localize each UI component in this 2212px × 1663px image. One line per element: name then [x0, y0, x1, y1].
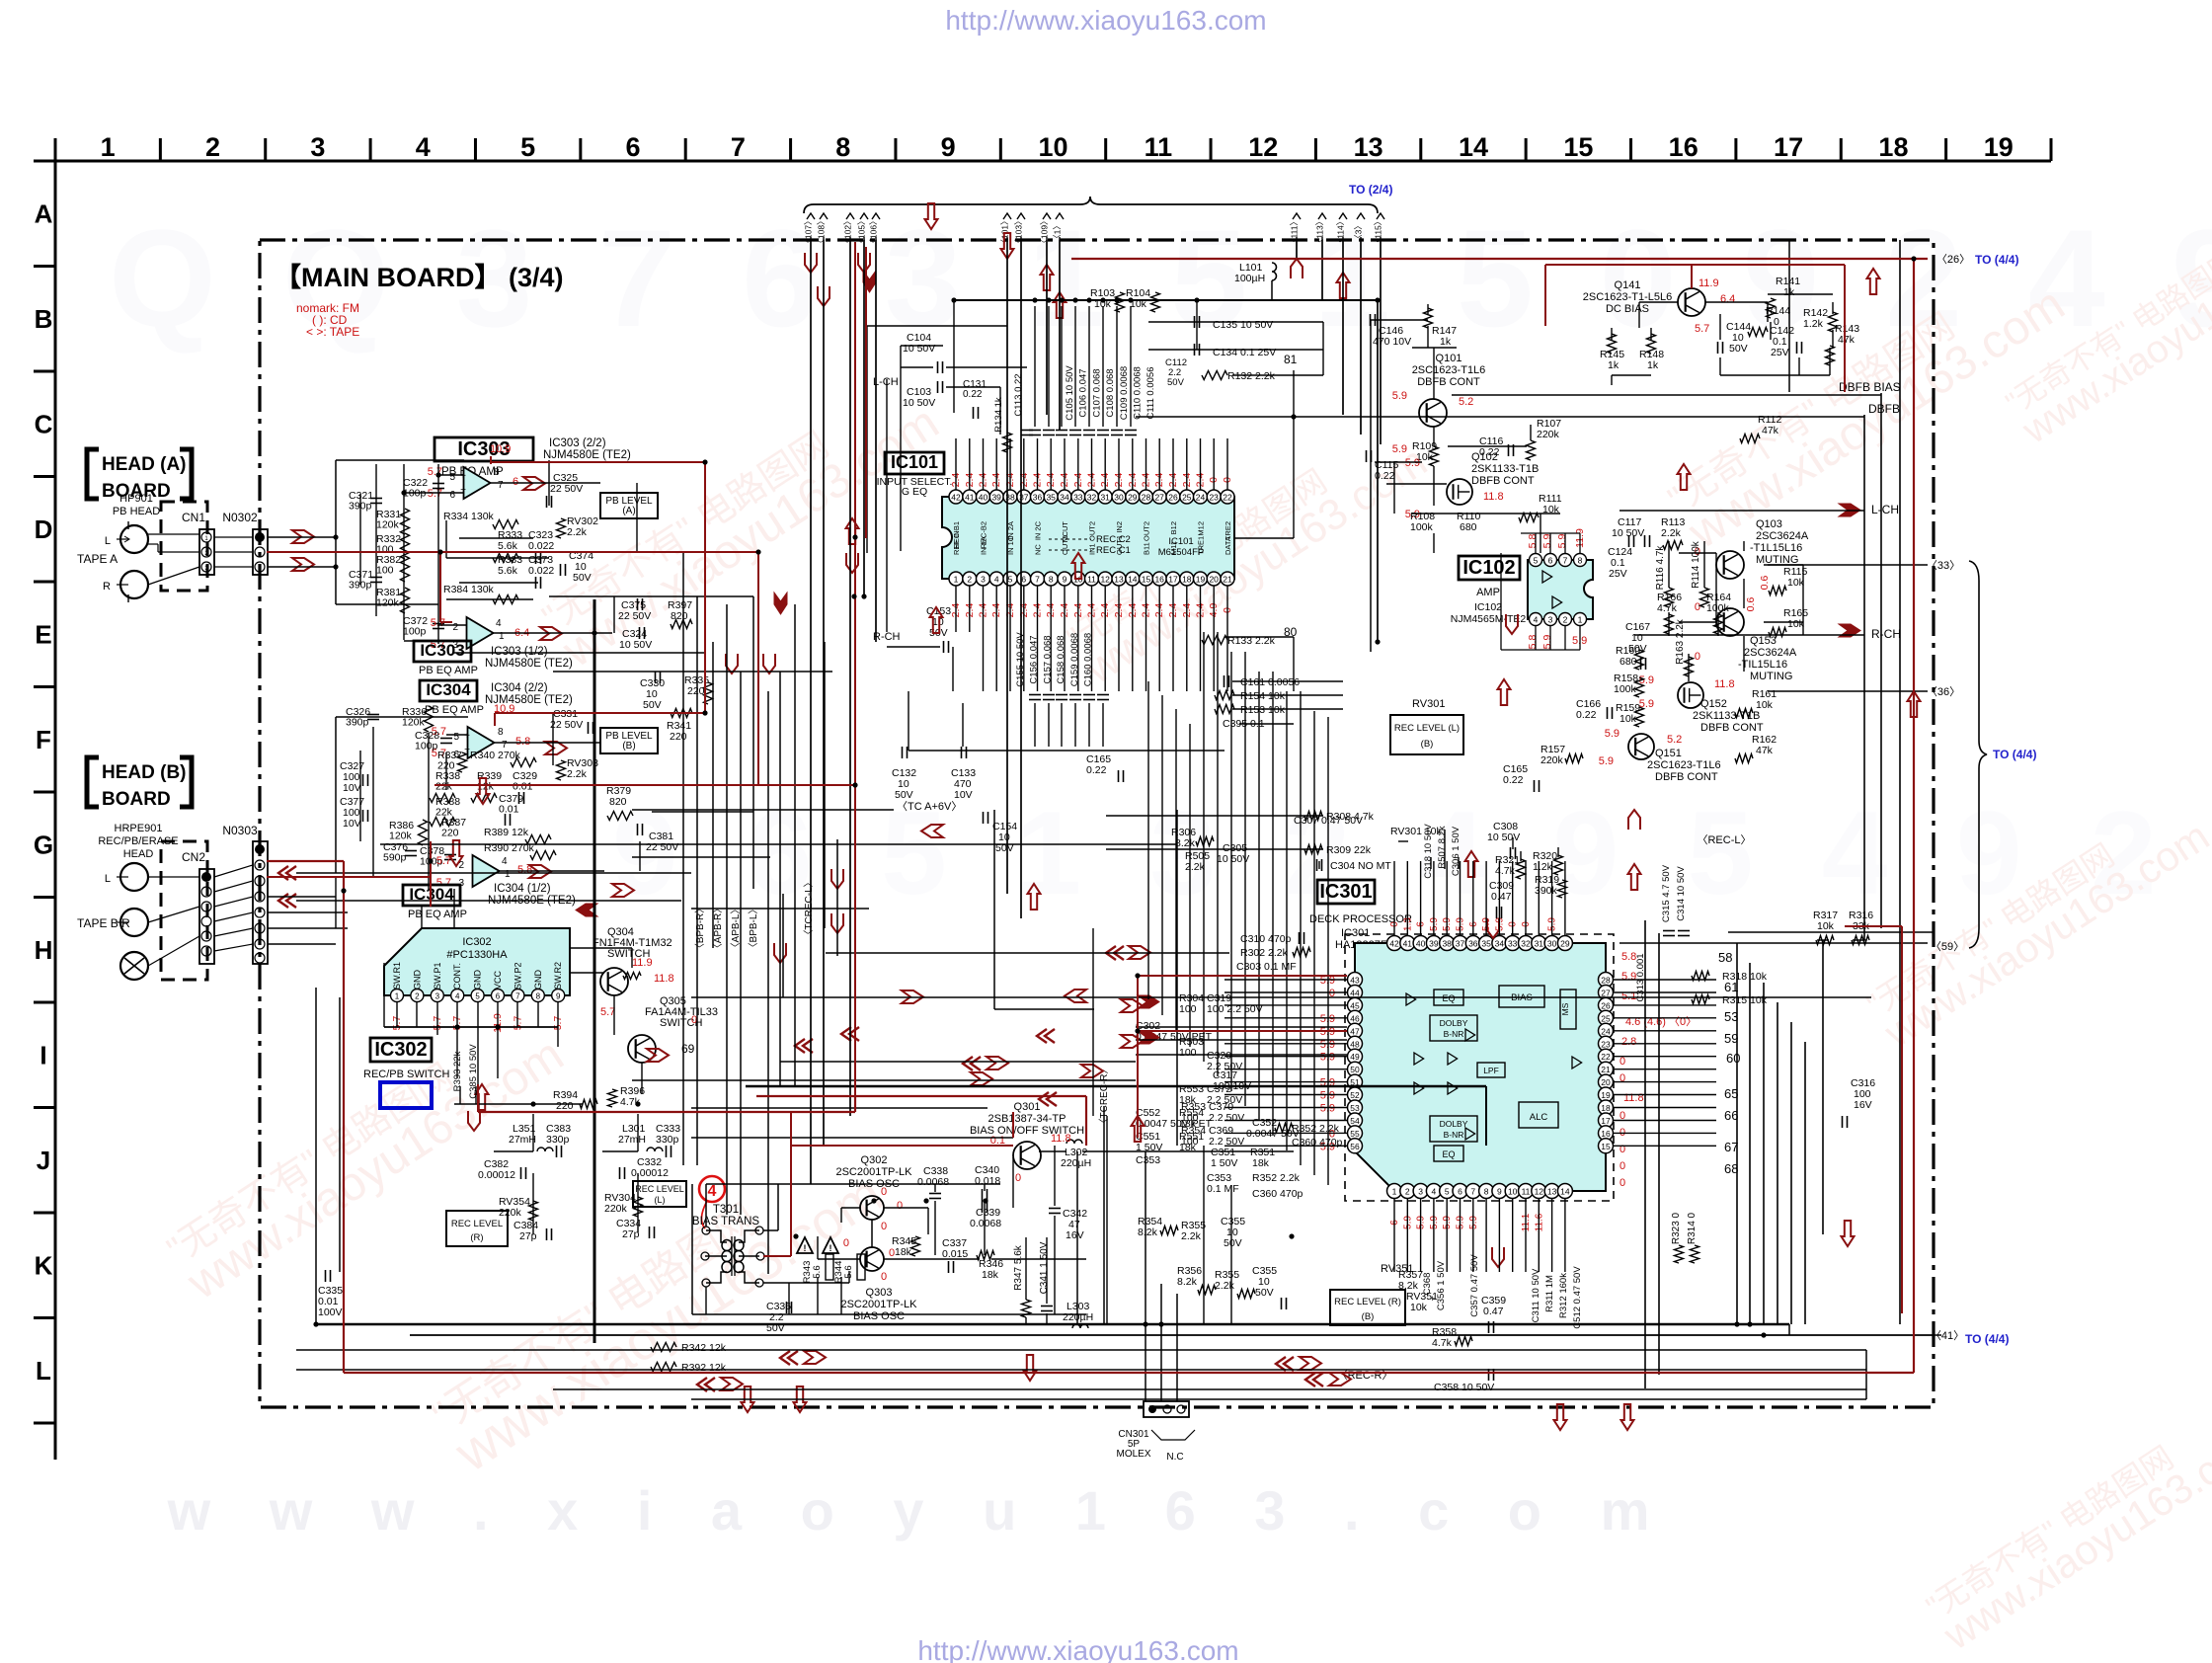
svg-text:220k: 220k — [604, 1203, 628, 1215]
svg-text:TO (4/4): TO (4/4) — [1993, 748, 2036, 761]
decorative watermark diagonal 4 — [1060, 411, 1436, 693]
svg-text:R-CH: R-CH — [1871, 627, 1901, 641]
svg-text:SW.R2: SW.R2 — [553, 962, 563, 990]
svg-text:4: 4 — [502, 856, 508, 867]
svg-text:0.022: 0.022 — [528, 565, 554, 577]
svg-text:7: 7 — [1563, 556, 1568, 566]
svg-text:8: 8 — [835, 132, 850, 162]
svg-text:20: 20 — [1209, 575, 1219, 585]
svg-text:C341 1 50V: C341 1 50V — [1039, 1241, 1050, 1294]
svg-text:RV301: RV301 — [1412, 698, 1445, 710]
svg-text:5: 5 — [475, 992, 480, 1001]
svg-text:OUT1: OUT1 — [1115, 535, 1124, 555]
svg-text:5.2: 5.2 — [1459, 396, 1473, 408]
svg-text:1: 1 — [1578, 615, 1583, 625]
svg-text:L: L — [105, 873, 111, 885]
svg-text:1k: 1k — [1440, 336, 1452, 348]
svg-text:R314 0: R314 0 — [1687, 1212, 1698, 1244]
svg-text:220k: 220k — [1537, 429, 1560, 440]
svg-text:11.8: 11.8 — [1051, 1133, 1071, 1145]
svg-text:〈108〉: 〈108〉 — [817, 216, 827, 247]
svg-text:27p: 27p — [519, 1230, 537, 1242]
svg-text:G: G — [34, 830, 53, 859]
svg-text:330p: 330p — [546, 1134, 570, 1146]
svg-text:47k: 47k — [1762, 425, 1779, 436]
svg-text:22: 22 — [1601, 1052, 1611, 1062]
svg-text:2SC3624A: 2SC3624A — [1756, 530, 1809, 542]
svg-text:DOLBY: DOLBY — [1440, 1119, 1468, 1129]
svg-text:0.01: 0.01 — [499, 804, 519, 816]
svg-text:< >: TAPE: < >: TAPE — [306, 325, 359, 339]
svg-text:C135 10 50V: C135 10 50V — [1213, 319, 1273, 331]
svg-text:9: 9 — [1063, 575, 1067, 585]
svg-text:8: 8 — [1578, 556, 1583, 566]
svg-text:REC LEVEL: REC LEVEL — [451, 1219, 503, 1229]
svg-text:590p: 590p — [383, 852, 407, 864]
svg-text:50V: 50V — [895, 789, 913, 801]
svg-text:0.47: 0.47 — [1483, 1306, 1504, 1317]
svg-text:46: 46 — [1350, 1013, 1360, 1023]
svg-text:5.9: 5.9 — [1605, 728, 1619, 740]
svg-text:DBFB CONT: DBFB CONT — [1471, 475, 1535, 487]
svg-text:2SB1387-34-TP: 2SB1387-34-TP — [988, 1113, 1066, 1125]
svg-text:〈APB-L〉: 〈APB-L〉 — [730, 905, 742, 953]
svg-text:220: 220 — [670, 731, 687, 743]
svg-text:16: 16 — [1154, 575, 1164, 585]
svg-text:36: 36 — [1033, 493, 1043, 503]
svg-text:820: 820 — [671, 610, 688, 622]
svg-text:IN 1A: IN 1A — [980, 536, 988, 555]
svg-text:20: 20 — [1601, 1077, 1611, 1087]
svg-text:L-CH: L-CH — [1871, 503, 1899, 516]
svg-text:0.6: 0.6 — [1759, 576, 1771, 591]
svg-text:REC LEVEL (L): REC LEVEL (L) — [1394, 723, 1460, 734]
svg-text:3: 3 — [1548, 615, 1553, 625]
svg-text:2.2k: 2.2k — [1661, 527, 1682, 539]
svg-text:L-CH: L-CH — [873, 376, 899, 388]
svg-text:35: 35 — [1481, 939, 1491, 949]
svg-text:100V: 100V — [318, 1307, 343, 1318]
svg-text:47k: 47k — [1756, 745, 1774, 756]
svg-text:C111 0.0056: C111 0.0056 — [1145, 367, 1156, 420]
IC102 chip body — [1528, 560, 1593, 619]
svg-text:DC BIAS: DC BIAS — [1606, 303, 1649, 315]
svg-text:6: 6 — [1548, 556, 1553, 566]
svg-text:15: 15 — [1563, 132, 1593, 162]
svg-text:+: + — [464, 731, 470, 742]
box REC LEVEL R — [1330, 1290, 1405, 1325]
decorative watermark diagonal 1 — [159, 998, 573, 1309]
box REC LEVEL R2 — [446, 1211, 508, 1246]
IC301 pins — [1387, 936, 1402, 951]
svg-text:10 50V: 10 50V — [1487, 831, 1520, 843]
IC301 chip body — [1355, 943, 1606, 1191]
svg-text:33: 33 — [1508, 939, 1518, 949]
head A L coil — [120, 525, 148, 553]
decorative watermark diagonal 3 — [534, 366, 948, 677]
svg-text:4: 4 — [994, 575, 999, 585]
svg-text:22 50V: 22 50V — [550, 483, 583, 495]
svg-text:25V: 25V — [1771, 347, 1789, 358]
black wires — [810, 240, 812, 1184]
svg-text:1: 1 — [101, 132, 116, 162]
svg-text:18k: 18k — [982, 1269, 999, 1281]
svg-text:5.7: 5.7 — [1695, 323, 1709, 335]
svg-text:H: H — [35, 935, 53, 965]
op-amp U IC303a — [464, 467, 491, 499]
svg-text:M12: M12 — [1197, 521, 1206, 536]
svg-text:55: 55 — [1350, 1129, 1360, 1139]
svg-text:Q151: Q151 — [1655, 748, 1682, 759]
IC302 block label — [370, 1038, 432, 1062]
svg-text:GND: GND — [533, 970, 543, 990]
svg-text:IC102: IC102 — [1462, 557, 1515, 579]
svg-text:4.7k: 4.7k — [1657, 602, 1678, 614]
op-amp U IC304a — [468, 727, 495, 758]
svg-text:19: 19 — [1196, 575, 1206, 585]
svg-text:R309 22k: R309 22k — [1326, 844, 1372, 856]
svg-text:−: − — [460, 485, 466, 496]
svg-text:11.9: 11.9 — [1698, 277, 1719, 289]
svg-text:21: 21 — [1223, 575, 1232, 585]
svg-text:100p: 100p — [415, 741, 438, 752]
svg-text:NJM4580E (TE2): NJM4580E (TE2) — [543, 449, 631, 461]
svg-text:13: 13 — [1354, 132, 1383, 162]
IC101 chip body — [942, 497, 1234, 579]
svg-text:100p: 100p — [403, 626, 427, 638]
svg-text:R323 0: R323 0 — [1671, 1212, 1682, 1244]
svg-text:B12: B12 — [1169, 521, 1178, 534]
wire head A to CN1 — [148, 533, 199, 535]
svg-text:VCC: VCC — [493, 970, 503, 990]
svg-text:14: 14 — [1560, 1187, 1570, 1197]
svg-text:0.022: 0.022 — [528, 540, 554, 552]
svg-text:C: C — [35, 409, 53, 438]
svg-text:EQ: EQ — [1442, 1149, 1455, 1159]
svg-text:6: 6 — [1458, 1187, 1462, 1197]
svg-text:5.9: 5.9 — [1392, 390, 1407, 402]
svg-text:〈REC-L〉: 〈REC-L〉 — [1697, 833, 1751, 846]
svg-text:R114 100k: R114 100k — [1691, 540, 1701, 589]
svg-text:http://www.xiaoyu163.com: http://www.xiaoyu163.com — [917, 1635, 1238, 1663]
svg-text:120k: 120k — [389, 831, 413, 842]
svg-text:REC C1: REC C1 — [1096, 545, 1131, 556]
grid ruler frame — [55, 160, 2051, 163]
svg-text:1: 1 — [395, 992, 400, 1001]
svg-text:C314 10 50V: C314 10 50V — [1676, 866, 1687, 921]
svg-text:R134 1k: R134 1k — [993, 397, 1004, 433]
svg-text:50V: 50V — [1224, 1237, 1242, 1249]
svg-text:1k: 1k — [1647, 359, 1659, 371]
svg-text:10 50V: 10 50V — [1217, 853, 1249, 865]
svg-text:C360 470p: C360 470p — [1252, 1188, 1303, 1200]
svg-text:5.6k: 5.6k — [498, 540, 518, 552]
svg-text:0: 0 — [1619, 1160, 1625, 1172]
svg-text:10: 10 — [1038, 132, 1067, 162]
transistor Q102 — [1447, 479, 1472, 505]
svg-text:Q141: Q141 — [1615, 279, 1641, 291]
svg-text:13: 13 — [1114, 575, 1124, 585]
svg-text:〈107〉: 〈107〉 — [804, 216, 814, 247]
head A dashed box — [161, 502, 207, 591]
svg-text:BIAS OSC: BIAS OSC — [853, 1310, 905, 1322]
svg-text:12: 12 — [1100, 575, 1110, 585]
svg-text:54: 54 — [1350, 1116, 1360, 1126]
svg-text:5.8: 5.8 — [1527, 534, 1539, 549]
svg-text:Q103: Q103 — [1756, 518, 1782, 530]
svg-text:27: 27 — [1601, 989, 1611, 998]
svg-text:C134 0.1 25V: C134 0.1 25V — [1213, 347, 1276, 358]
box REC LEVEL L2 — [633, 1181, 686, 1207]
svg-text:R389 12k: R389 12k — [484, 827, 529, 838]
svg-text:2: 2 — [452, 622, 458, 633]
svg-text:53: 53 — [1350, 1103, 1360, 1113]
svg-text:2.2 50V: 2.2 50V — [1209, 1112, 1244, 1124]
svg-text:10 50V: 10 50V — [619, 639, 652, 651]
svg-text:5.8: 5.8 — [1527, 635, 1539, 650]
svg-text:GND: GND — [412, 970, 422, 990]
svg-text:Q303: Q303 — [866, 1287, 893, 1299]
svg-text:CN1: CN1 — [182, 511, 205, 524]
svg-text:C315 4.7 50V: C315 4.7 50V — [1661, 864, 1672, 922]
svg-text:F: F — [36, 725, 51, 754]
svg-text:47k: 47k — [1838, 334, 1856, 346]
svg-text:15: 15 — [1142, 575, 1151, 585]
svg-text:6: 6 — [449, 490, 455, 501]
svg-text:58: 58 — [1718, 950, 1732, 965]
op-amp U IC303b — [467, 617, 494, 649]
svg-text:NC: NC — [1034, 544, 1043, 555]
svg-text:C107 0.068: C107 0.068 — [1091, 368, 1102, 417]
decorative watermark diagonal 6 — [1919, 1390, 2212, 1659]
svg-text:16: 16 — [1601, 1129, 1611, 1139]
svg-text:32: 32 — [1087, 493, 1097, 503]
svg-text:R312 160k: R312 160k — [1558, 1273, 1569, 1318]
IC102 pins — [1530, 554, 1542, 567]
svg-text:BOARD: BOARD — [102, 789, 171, 810]
decorative watermark diagonal 2 — [424, 1132, 893, 1484]
IC101 block label — [885, 452, 944, 474]
svg-text:A: A — [35, 198, 53, 228]
svg-text:11: 11 — [1087, 575, 1096, 585]
svg-text:OUT2: OUT2 — [1143, 521, 1151, 541]
svg-text:Q102: Q102 — [1471, 451, 1498, 463]
svg-text:R: R — [103, 581, 111, 593]
svg-text:M11: M11 — [1169, 541, 1178, 555]
svg-text:〈103〉: 〈103〉 — [1014, 216, 1024, 247]
svg-text:R507 8.2k: R507 8.2k — [1437, 826, 1448, 869]
svg-text:【MAIN BOARD】 (3/4): 【MAIN BOARD】 (3/4) — [275, 263, 564, 292]
svg-text:0.6: 0.6 — [1745, 597, 1757, 612]
svg-text:11.8: 11.8 — [1483, 491, 1504, 503]
svg-text:31: 31 — [1100, 493, 1110, 503]
svg-text:28: 28 — [1142, 493, 1151, 503]
svg-text:SW.R1: SW.R1 — [392, 962, 402, 990]
svg-text:B11: B11 — [1143, 542, 1151, 555]
connector N0302 pins — [253, 529, 268, 575]
svg-text:120k: 120k — [376, 597, 400, 609]
svg-text:26: 26 — [1601, 1000, 1611, 1010]
svg-text:0: 0 — [1695, 601, 1700, 613]
svg-text:4: 4 — [455, 992, 460, 1001]
svg-text:390k: 390k — [1535, 885, 1558, 897]
svg-text:5.6: 5.6 — [812, 1265, 823, 1278]
svg-text:25: 25 — [1601, 1013, 1611, 1023]
svg-text:IC304 (2/2): IC304 (2/2) — [491, 682, 548, 694]
svg-text:4: 4 — [708, 1183, 717, 1200]
svg-text:0: 0 — [897, 1200, 903, 1212]
svg-text:2SC1623-T1-L5L6: 2SC1623-T1-L5L6 — [1583, 291, 1673, 303]
svg-text:50V: 50V — [1255, 1287, 1274, 1299]
svg-text:0.0068: 0.0068 — [917, 1176, 949, 1188]
svg-text:N0302: N0302 — [222, 511, 258, 524]
svg-text:10 50V: 10 50V — [903, 343, 935, 355]
svg-text:6: 6 — [1021, 575, 1026, 585]
svg-text:11.8: 11.8 — [654, 973, 674, 985]
svg-text:5.8: 5.8 — [1621, 951, 1636, 963]
svg-text:0: 0 — [881, 1221, 887, 1232]
svg-text:100k: 100k — [1410, 521, 1434, 533]
svg-text:0.018: 0.018 — [975, 1175, 1000, 1187]
IC102 block label — [1459, 556, 1520, 580]
svg-text:16V: 16V — [1854, 1099, 1872, 1111]
svg-text:220µH: 220µH — [1061, 1157, 1091, 1169]
svg-text:TO (4/4): TO (4/4) — [1965, 1332, 2009, 1346]
svg-text:C356 1 50V: C356 1 50V — [1436, 1260, 1447, 1310]
svg-text:-TIL15L16: -TIL15L16 — [1738, 659, 1787, 671]
svg-text:0: 0 — [1695, 651, 1700, 663]
svg-text:w w w . x i a o y u 1 6 3 . c: w w w . x i a o y u 1 6 3 . c o m — [167, 1479, 1672, 1542]
svg-text:D: D — [35, 515, 53, 544]
svg-text:0.00012: 0.00012 — [631, 1167, 669, 1179]
svg-text:32: 32 — [1521, 939, 1531, 949]
svg-text:〈1〉: 〈1〉 — [1053, 221, 1063, 243]
svg-text:BIAS TRANS: BIAS TRANS — [692, 1216, 759, 1227]
connector CN1 pins — [199, 529, 214, 575]
svg-text:16V: 16V — [1066, 1229, 1084, 1241]
svg-text:10 50V: 10 50V — [903, 397, 935, 409]
svg-text:G EQ: G EQ — [902, 486, 927, 498]
svg-text:22: 22 — [1223, 493, 1232, 503]
svg-text:3: 3 — [981, 575, 986, 585]
svg-text:100k: 100k — [1614, 683, 1637, 695]
svg-text:19: 19 — [1601, 1090, 1611, 1100]
svg-text:C310 470p: C310 470p — [1240, 933, 1292, 945]
svg-text:R153 10k: R153 10k — [1240, 704, 1286, 716]
svg-text:〈33〉: 〈33〉 — [1927, 559, 1960, 572]
svg-text:R342 12k: R342 12k — [681, 1342, 727, 1354]
svg-text:5: 5 — [520, 132, 535, 162]
svg-text:11: 11 — [1145, 132, 1173, 162]
svg-text:220k: 220k — [499, 1207, 522, 1219]
svg-text:2SC2001TP-LK: 2SC2001TP-LK — [840, 1299, 917, 1310]
svg-text:IC102: IC102 — [1474, 601, 1502, 613]
svg-text:B-NR: B-NR — [1444, 1029, 1464, 1039]
head B dashed box — [161, 841, 207, 980]
svg-text:R347 5.6k: R347 5.6k — [1013, 1244, 1024, 1291]
svg-text:2.2k: 2.2k — [567, 768, 588, 780]
svg-text:SW.P1: SW.P1 — [433, 962, 442, 990]
svg-text:15: 15 — [1601, 1142, 1611, 1151]
svg-text:14: 14 — [1128, 575, 1138, 585]
svg-text:2: 2 — [415, 992, 420, 1001]
svg-text:DBFB: DBFB — [1868, 402, 1900, 416]
svg-text:0.0068: 0.0068 — [970, 1218, 1001, 1229]
svg-text:TO (4/4): TO (4/4) — [1975, 253, 2018, 267]
svg-text:C304 NO MT: C304 NO MT — [1330, 860, 1391, 872]
svg-text:27mH: 27mH — [618, 1134, 646, 1146]
transformer T301 — [706, 1230, 727, 1242]
svg-text:(A): (A) — [622, 506, 635, 516]
svg-text:C108 0.068: C108 0.068 — [1105, 368, 1116, 417]
svg-text:〈3〉: 〈3〉 — [1354, 221, 1364, 243]
svg-text:10: 10 — [1508, 1187, 1518, 1197]
svg-text:ALC: ALC — [1530, 1112, 1548, 1123]
svg-text:TRE1: TRE1 — [1197, 536, 1206, 555]
svg-text:22 50V: 22 50V — [646, 841, 678, 853]
capacitors above IC101 — [1029, 430, 1041, 432]
svg-text:L: L — [105, 535, 111, 547]
svg-text:2SC2001TP-LK: 2SC2001TP-LK — [835, 1166, 912, 1178]
capacitors below IC101 — [1029, 694, 1041, 696]
decorative watermark diagonal 7 — [1660, 248, 2074, 559]
svg-text:37: 37 — [1456, 939, 1465, 949]
svg-text:5: 5 — [1008, 575, 1013, 585]
svg-text:48: 48 — [1350, 1039, 1360, 1049]
svg-text:K: K — [35, 1250, 53, 1280]
warning marks — [797, 1237, 813, 1253]
svg-text:0.015: 0.015 — [942, 1248, 968, 1260]
svg-text:50V: 50V — [573, 572, 592, 584]
svg-text:REC C2: REC C2 — [1096, 534, 1131, 545]
svg-text:100: 100 — [1179, 1047, 1197, 1059]
svg-text:50: 50 — [1350, 1065, 1360, 1074]
svg-text:5.6k: 5.6k — [498, 565, 518, 577]
svg-text:IC304: IC304 — [426, 680, 471, 699]
svg-text:C318 10 50V: C318 10 50V — [1423, 824, 1434, 879]
head A board title — [87, 449, 99, 499]
svg-text:C106 0.047: C106 0.047 — [1078, 368, 1089, 417]
svg-text:(B): (B) — [622, 741, 635, 752]
svg-text:N.C: N.C — [1166, 1452, 1183, 1463]
svg-text:16: 16 — [1669, 132, 1698, 162]
svg-text:MUTING: MUTING — [1750, 671, 1792, 682]
svg-text:〈111〉: 〈111〉 — [1290, 217, 1300, 247]
svg-text:6: 6 — [513, 476, 518, 488]
blue service box — [380, 1082, 432, 1108]
svg-text:Q153: Q153 — [1750, 635, 1777, 647]
svg-text:220k: 220k — [1540, 754, 1564, 766]
svg-text:29: 29 — [1128, 493, 1138, 503]
svg-text:4.7k: 4.7k — [1432, 1337, 1453, 1349]
red arrows — [805, 253, 817, 273]
svg-text:0.22: 0.22 — [963, 389, 983, 400]
head B erase coil — [120, 952, 148, 980]
svg-text:REC/PB SWITCH: REC/PB SWITCH — [363, 1069, 449, 1080]
svg-text:〈113〉: 〈113〉 — [1315, 217, 1325, 248]
svg-text:22 50V: 22 50V — [618, 610, 651, 622]
svg-text:R302 2.2k: R302 2.2k — [1240, 947, 1289, 959]
svg-text:Q302: Q302 — [861, 1154, 888, 1166]
svg-text:0: 0 — [1619, 1056, 1625, 1068]
svg-text:1.2k: 1.2k — [1533, 861, 1553, 873]
svg-text:0: 0 — [1015, 1172, 1021, 1184]
svg-text:IC303 (2/2): IC303 (2/2) — [549, 437, 606, 449]
svg-text:〈BPB-R〉: 〈BPB-R〉 — [694, 904, 706, 954]
svg-text:5.9: 5.9 — [1541, 635, 1553, 650]
svg-text:8.2k: 8.2k — [1175, 837, 1196, 849]
svg-text:C353: C353 — [1136, 1154, 1160, 1166]
